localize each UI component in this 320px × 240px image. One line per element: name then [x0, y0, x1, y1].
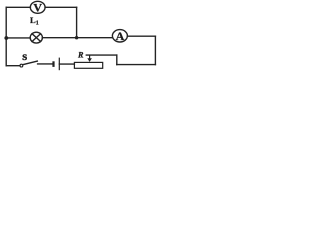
switch S	[20, 61, 38, 67]
switch blade	[23, 61, 38, 65]
wire rheostat wiper run	[86, 54, 117, 56]
wire lamp to junction	[42, 37, 76, 39]
lamp L1 cross	[32, 34, 41, 42]
wire junction to ammeter	[77, 37, 113, 39]
wire step vertical	[116, 55, 118, 65]
svg-text:1: 1	[36, 21, 39, 27]
svg-text:S: S	[22, 52, 27, 62]
svg-text:V: V	[33, 1, 42, 15]
battery cell	[54, 58, 60, 71]
rheostat R	[74, 55, 102, 68]
node junction dot right	[75, 36, 78, 39]
voltmeter V	[30, 1, 45, 13]
battery long thin plate	[58, 58, 60, 71]
wire top right segment	[45, 6, 77, 8]
svg-text:R: R	[77, 51, 84, 60]
wire ammeter to right corner	[127, 35, 155, 37]
ammeter A	[112, 30, 127, 42]
wire top left segment	[6, 6, 30, 8]
battery short thick plate	[52, 61, 54, 67]
rheostat wiper arrow head	[87, 58, 92, 62]
switch pivot circle	[20, 64, 23, 67]
svg-text:A: A	[116, 29, 125, 43]
rheostat body rectangle	[74, 62, 102, 68]
rheostat wiper arrow shaft	[89, 55, 91, 59]
wire right rail	[154, 36, 156, 64]
node junction dot left	[4, 36, 8, 40]
wire lamp row left	[6, 37, 30, 39]
wire bottom right rail	[117, 64, 156, 66]
lamp L1 circle	[30, 32, 42, 43]
wire battery to rheostat	[59, 63, 74, 65]
wire voltmeter branch vertical	[76, 7, 78, 37]
wire bottom left segment	[6, 65, 20, 67]
wire switch to battery	[38, 63, 53, 65]
wire left rail	[5, 7, 7, 65]
